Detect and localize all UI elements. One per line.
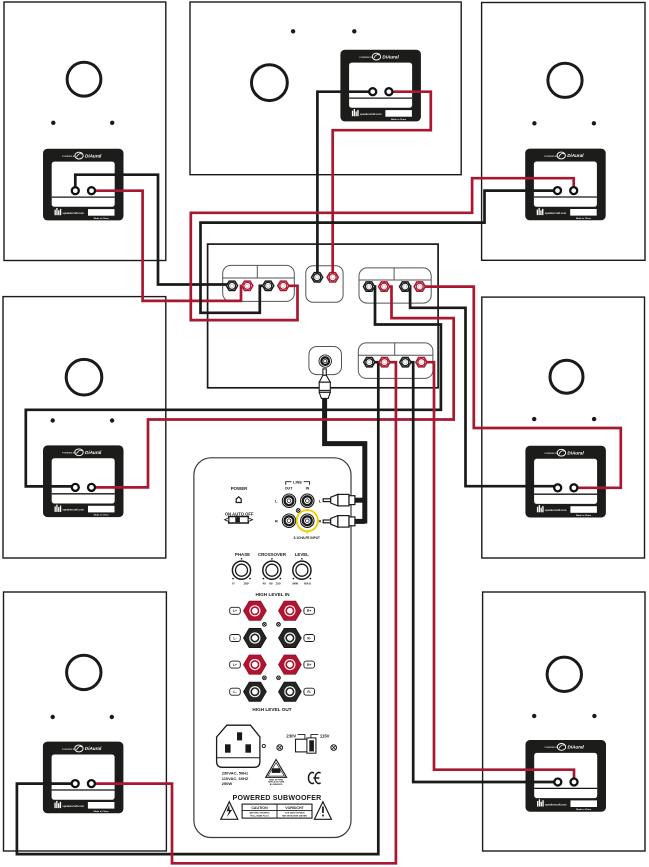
svg-text:L-: L- bbox=[233, 690, 236, 694]
svg-text:5.1CH/LFE INPUT: 5.1CH/LFE INPUT bbox=[294, 536, 320, 540]
power LED indicator bbox=[236, 497, 241, 503]
L+ pill bbox=[230, 607, 241, 614]
power mode slide switch bbox=[225, 517, 253, 524]
R+ pill bbox=[304, 607, 315, 614]
receiver center posts bbox=[312, 273, 323, 282]
svg-text:MAX: MAX bbox=[304, 582, 311, 586]
svg-text:ON AUTO OFF: ON AUTO OFF bbox=[225, 511, 254, 516]
subwoofer line-out RCA jack bbox=[319, 355, 331, 367]
svg-text:AS MARKED: AS MARKED bbox=[270, 783, 283, 786]
wire surround-left red: receiver surround L + to mid-left plate bbox=[92, 287, 454, 488]
svg-text:180°: 180° bbox=[243, 582, 250, 586]
wire front-left red: plate to receiver front L + post bbox=[92, 191, 248, 301]
out R+ pill bbox=[304, 661, 315, 668]
svg-text:IN: IN bbox=[306, 487, 310, 491]
svg-text:R: R bbox=[319, 518, 322, 523]
svg-text:VOR DEM ÖFFNEN: VOR DEM ÖFFNEN bbox=[285, 812, 305, 815]
high level in L+ post bbox=[244, 601, 267, 620]
receiver center-channel terminal square bbox=[306, 266, 343, 303]
RCA plug at receiver sub out bbox=[319, 369, 330, 399]
svg-text:115V: 115V bbox=[320, 734, 330, 739]
LEVEL label and knob bbox=[293, 552, 312, 586]
plate terminals mid-right bbox=[554, 484, 561, 491]
L- pill bbox=[230, 635, 241, 642]
svg-text:HIGH LEVEL OUT: HIGH LEVEL OUT bbox=[252, 707, 291, 712]
svg-text:L-: L- bbox=[233, 636, 236, 640]
wall plate top-right speaker bbox=[525, 149, 606, 221]
high level in L- post bbox=[244, 628, 267, 647]
LINE bracket label bbox=[285, 480, 310, 491]
receiver front L/R terminal block bbox=[223, 265, 295, 301]
wire center red: plate to receiver center + post bbox=[333, 92, 431, 278]
high level out L+ post bbox=[244, 655, 267, 674]
wall plate top-center speaker bbox=[340, 50, 421, 122]
caution / vorsicht label box bbox=[242, 804, 312, 818]
high level in R+ post bbox=[279, 601, 302, 620]
svg-text:MIN: MIN bbox=[293, 582, 299, 586]
svg-text:POWERED SUBWOOFER: POWERED SUBWOOFER bbox=[233, 794, 322, 802]
wire front-right red: plate to receiver front R + post bbox=[191, 178, 574, 320]
svg-text:HIGH LEVEL IN: HIGH LEVEL IN bbox=[255, 592, 290, 597]
caution lightning triangle bbox=[221, 802, 238, 820]
svg-text:R-: R- bbox=[307, 690, 311, 694]
svg-text:R+: R+ bbox=[307, 663, 311, 667]
screw left of voltage switch bbox=[277, 745, 283, 751]
speaker box front-left (top-left) bbox=[4, 2, 166, 261]
line out L jack bbox=[282, 494, 295, 507]
small indicator circle beside socket bbox=[262, 744, 265, 747]
wall plate bottom-left speaker bbox=[43, 742, 124, 814]
voltage selector labels 230V / 115V bbox=[286, 734, 329, 740]
receiver rear block posts bbox=[364, 358, 375, 367]
svg-text:LEVEL: LEVEL bbox=[295, 552, 309, 557]
svg-text:LINE: LINE bbox=[293, 480, 302, 485]
speaker box rear-left (bottom-left) bbox=[4, 592, 167, 851]
CROSSOVER label and knob bbox=[258, 552, 287, 586]
high level out R- post bbox=[279, 682, 302, 701]
screw right of voltage switch bbox=[331, 745, 337, 751]
caution exclamation triangle bbox=[314, 802, 331, 820]
wire rear-right red: receiver rear R + to bottom-right plate bbox=[421, 362, 574, 782]
svg-text:40: 40 bbox=[263, 582, 267, 586]
line out R jack bbox=[282, 514, 295, 527]
svg-text:L+: L+ bbox=[233, 609, 237, 613]
receiver rear/surround-back terminal block bbox=[358, 343, 433, 379]
voltage selector switch bbox=[296, 738, 316, 753]
screw between jacks bbox=[296, 509, 300, 513]
svg-text:R: R bbox=[275, 518, 278, 523]
wire front-right black: plate to receiver front R - post bbox=[201, 191, 558, 313]
fuse warning triangle bbox=[266, 760, 287, 786]
line in L jack bbox=[301, 494, 314, 507]
receiver surround block posts bbox=[363, 282, 374, 291]
svg-text:L+: L+ bbox=[233, 663, 237, 667]
svg-text:CROSSOVER: CROSSOVER bbox=[258, 552, 287, 557]
AV receiver back panel bbox=[208, 244, 439, 388]
speaker box surround-right (mid-right) bbox=[482, 297, 645, 558]
powered subwoofer amplifier panel bbox=[194, 458, 351, 838]
svg-text:NETZSTECKER ZIEHEN: NETZSTECKER ZIEHEN bbox=[282, 815, 307, 817]
PHASE label and knob bbox=[232, 552, 251, 586]
yellow highlight circle on line-in R bbox=[294, 510, 320, 540]
screws between high-level-out rows bbox=[263, 676, 267, 680]
wire center black: plate to receiver center - post bbox=[317, 92, 372, 278]
svg-text:OUT: OUT bbox=[285, 487, 294, 491]
svg-text:VORSICHT: VORSICHT bbox=[285, 806, 304, 810]
svg-text:PHASE: PHASE bbox=[235, 552, 250, 557]
wire surround-right red: receiver surround R + to mid-right plate bbox=[420, 287, 621, 488]
speaker box front-right (top-right) bbox=[482, 3, 645, 261]
svg-text:150: 150 bbox=[275, 582, 280, 586]
svg-text:90: 90 bbox=[269, 582, 273, 586]
wire surround-right black: receiver surround R - to mid-right plate bbox=[405, 287, 558, 487]
wire rear-left red: receiver rear L + to bottom-left plate bbox=[91, 362, 396, 863]
speaker box rear-right (bottom-right) bbox=[483, 592, 645, 851]
svg-text:POWER: POWER bbox=[231, 486, 248, 491]
wall plate mid-left speaker bbox=[43, 445, 124, 517]
wire surround-left black: receiver surround L - to mid-left plate bbox=[26, 287, 441, 487]
svg-text:R+: R+ bbox=[307, 609, 311, 613]
svg-text:250W: 250W bbox=[222, 781, 233, 786]
R- pill bbox=[304, 635, 315, 642]
CE mark bbox=[308, 773, 320, 784]
high level in R- post bbox=[279, 628, 302, 647]
RCA plug into sub line-in L bbox=[323, 494, 355, 506]
plate terminals top-left bbox=[72, 187, 79, 194]
svg-text:PULL MAIN PLUG: PULL MAIN PLUG bbox=[250, 814, 269, 817]
plate terminals mid-left bbox=[72, 484, 79, 491]
out L+ pill bbox=[230, 661, 241, 668]
wall plate top-left speaker bbox=[43, 149, 124, 221]
high level out L- post bbox=[244, 682, 267, 701]
plate terminals top-center bbox=[369, 88, 376, 95]
speaker box surround-left (mid-left) bbox=[3, 297, 166, 558]
receiver surround terminal block bbox=[359, 268, 431, 303]
thick RCA interconnect cable bbox=[325, 394, 365, 524]
out L- pill bbox=[230, 688, 241, 695]
wire rear-right black: receiver rear R - to bottom-right plate bbox=[405, 362, 558, 782]
power rating text bbox=[222, 771, 249, 786]
high level out R+ post bbox=[279, 655, 302, 674]
wall plate bottom-right speaker bbox=[526, 740, 607, 812]
out R- pill bbox=[304, 688, 315, 695]
plate terminals bottom-right bbox=[554, 779, 561, 786]
receiver front block posts bbox=[226, 281, 237, 290]
screws between high-level-in rows bbox=[263, 623, 267, 627]
RCA plug into sub line-in R bbox=[323, 516, 355, 528]
plate terminals top-right bbox=[554, 187, 561, 194]
speaker box center (top-center) bbox=[190, 2, 461, 175]
wire rear-left black: receiver rear L - to bottom-left plate bbox=[17, 362, 378, 854]
svg-text:R-: R- bbox=[307, 636, 311, 640]
receiver subwoofer line-out square bbox=[309, 347, 342, 375]
wire front-left black: plate to receiver front L - post bbox=[75, 175, 232, 285]
line in R jack bbox=[301, 514, 314, 527]
svg-text:230V: 230V bbox=[286, 734, 296, 739]
plate terminals bottom-left bbox=[72, 780, 79, 787]
svg-text:CAUTION: CAUTION bbox=[251, 806, 268, 810]
wall plate mid-right speaker bbox=[525, 446, 606, 518]
mains inlet (UK socket outline) bbox=[217, 725, 260, 767]
svg-text:BEFORE OPENING: BEFORE OPENING bbox=[250, 813, 270, 815]
